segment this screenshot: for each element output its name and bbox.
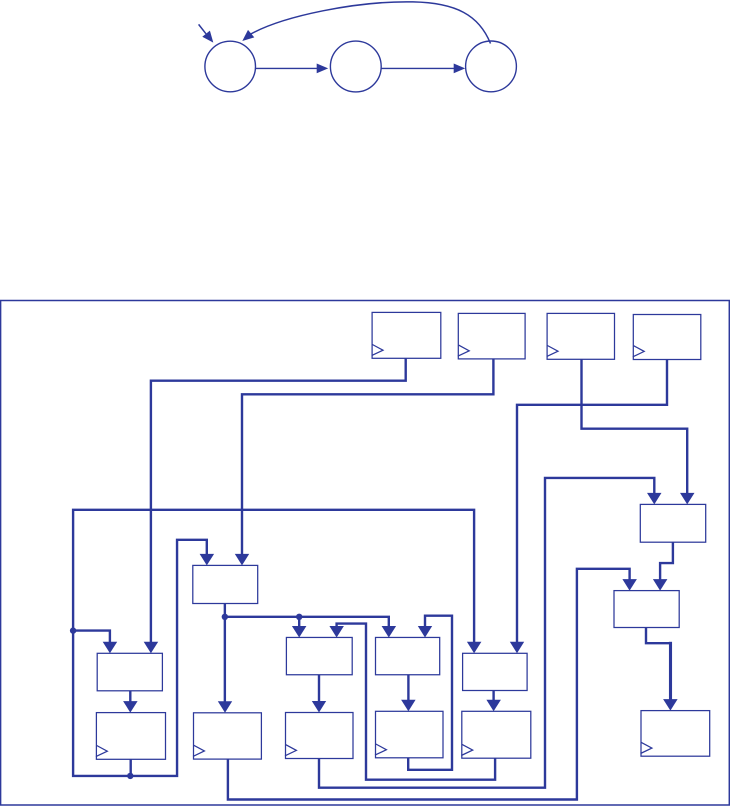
wire C1 output to FF1 input <box>123 691 138 713</box>
junction dot FF1 net branch to C1 <box>70 627 76 633</box>
transition arc S3 back to S1 <box>242 2 490 44</box>
initial-state arrow into S1 <box>199 24 214 42</box>
wire M2 output to FF6 input <box>646 628 678 711</box>
wire C2 output to FF3 input <box>312 675 326 713</box>
state S1 circle <box>205 41 256 92</box>
logic box M2 <box>614 591 679 628</box>
junction dot A1 net branch to C2 <box>296 614 302 620</box>
flip-flop FF1 <box>96 713 165 760</box>
logic box C2 <box>286 637 352 674</box>
wire A1 net to C3 input 1 <box>225 617 396 638</box>
wire FF2 output to M2 input 1 <box>228 569 637 800</box>
state S2 circle <box>330 41 381 92</box>
flip-flop FF6 <box>641 711 710 757</box>
wire C3 output to FF4 input <box>401 675 416 712</box>
flip-flop FF4 <box>376 711 444 758</box>
flip-flop B3 (top row) <box>547 313 614 359</box>
wire FF4 output to C3 input 2 <box>408 616 452 770</box>
wire C4 output to FF5 input <box>486 691 501 712</box>
flip-flop FF2 <box>194 713 262 759</box>
wire FF3 output to M1 input 1 <box>319 478 662 788</box>
flip-flop B4 (top row) <box>633 315 701 360</box>
logic box C4 <box>463 653 527 690</box>
wire B3 output to M1 input 2 <box>582 359 695 504</box>
logic box M1 <box>640 504 705 542</box>
wire A1 output to FF2 input <box>218 604 232 713</box>
wire A1 net branch to C2 input 1 <box>292 617 307 638</box>
wire B2 output to A1 input 2 <box>235 359 494 566</box>
wire branch FF1 net to C1 input 1 <box>73 631 117 654</box>
flip-flop FF3 <box>286 713 354 759</box>
state S3 circle <box>466 41 517 92</box>
wire B4 output to C4 input 2 <box>510 360 667 654</box>
flip-flop B1 (top row) <box>372 312 441 358</box>
schematic sheet border <box>1 301 730 806</box>
logic box C1 <box>97 653 162 691</box>
flip-flop FF5 <box>462 711 531 758</box>
wire FF1 output feedback trunk to C4 input 1 <box>73 510 481 776</box>
wire FF5 output to C2 input 2 <box>329 624 495 780</box>
junction dot A1 output tee <box>222 614 228 620</box>
flip-flop B2 (top row) <box>458 313 525 359</box>
wire B1 output to C1 input 2 <box>144 358 406 653</box>
logic box C3 <box>376 637 440 674</box>
logic box A1 <box>193 565 258 603</box>
wire branch FF1 net to A1 input 1 <box>131 540 214 776</box>
wire M1 output to M2 input 2 <box>653 542 673 590</box>
junction dot FF1 output tee <box>127 773 133 779</box>
transition arrow S2 to S3 <box>381 64 465 74</box>
transition arrow S1 to S2 <box>256 64 329 74</box>
